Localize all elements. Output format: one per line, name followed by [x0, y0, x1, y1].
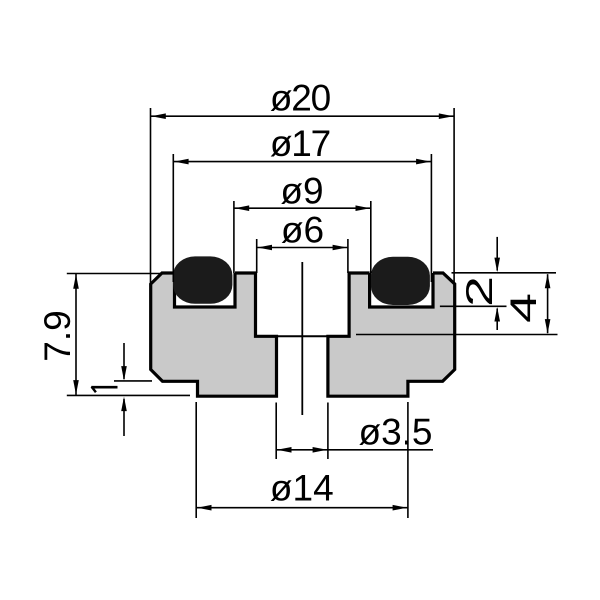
part outline right half (thick) — [328, 273, 455, 396]
centerline — [301, 262, 303, 415]
right: top surface extension line — [452, 272, 557, 274]
dimension ø20: extension lines — [150, 108, 152, 283]
dimension ø3.5: extension lines — [275, 403, 277, 460]
part body cross-section (gray fill) — [151, 273, 455, 396]
dimension ø9: dimension line — [234, 207, 370, 209]
dimension ø6: extension lines — [256, 239, 258, 273]
dimension 4: dimension line with arrows — [547, 274, 549, 333]
svg-text:ø6: ø6 — [281, 210, 324, 251]
svg-text:ø9: ø9 — [280, 171, 323, 212]
dimension 2: lower arrow — [496, 309, 498, 331]
svg-text:ø17: ø17 — [270, 123, 330, 164]
dimension ø6: dimension line — [257, 247, 347, 249]
dimension ø3.5: dimension line + leader — [277, 449, 433, 451]
dimension 1: extension line — [114, 380, 152, 382]
dimension ø17: dimension line — [174, 161, 431, 163]
dimension 1: lower arrow — [123, 399, 125, 436]
dimension 2: upper arrow — [496, 237, 498, 271]
svg-text:2: 2 — [458, 276, 500, 307]
svg-text:ø3.5: ø3.5 — [358, 412, 432, 453]
dimension ø14: extension lines — [195, 402, 197, 518]
svg-text:ø14: ø14 — [270, 467, 334, 508]
O-ring left — [173, 256, 232, 303]
svg-text:7.9: 7.9 — [37, 310, 78, 361]
label 1 (rotated) — [91, 386, 117, 389]
part outline left half (thick) — [151, 273, 277, 396]
groove right (thick outline) — [370, 273, 433, 307]
dimension ø9: extension lines — [233, 201, 235, 273]
dimension 7.9: dimension line — [75, 274, 77, 395]
back edge of counterbore bottom seen through hole — [277, 335, 328, 337]
svg-text:4: 4 — [502, 293, 544, 323]
O-ring right — [371, 257, 430, 305]
dimension ø14: dimension line — [197, 507, 408, 509]
dimension 1: upper arrow — [123, 343, 125, 379]
groove left (thick outline) — [175, 273, 236, 307]
svg-text:ø20: ø20 — [270, 78, 331, 119]
dimension ø17: extension lines — [172, 154, 174, 282]
dimension 7.9: extension lines — [67, 273, 162, 275]
right: groove bottom extension line — [440, 305, 507, 307]
right: counterbore bottom extension line — [356, 334, 558, 336]
dimension ø20: dimension line — [151, 115, 454, 117]
